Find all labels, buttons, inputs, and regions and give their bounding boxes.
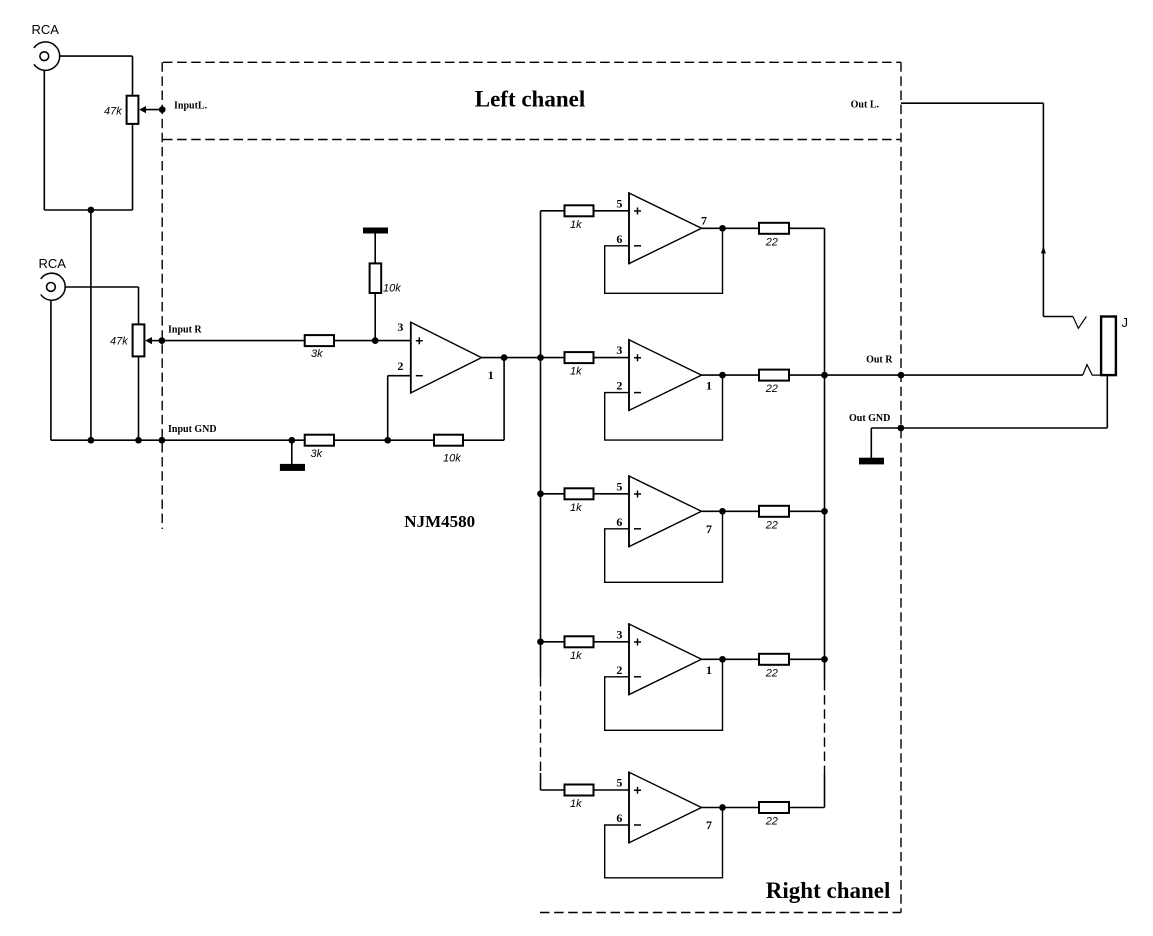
- wire 10k to + input: [374, 293, 376, 341]
- wire output to 22 (buffer 5): [702, 807, 760, 809]
- wire bus to 1k (buffer 2): [541, 357, 565, 359]
- wire Out L: [901, 102, 1043, 104]
- node pot2 bottom dot on Input GND: [135, 437, 142, 444]
- op-amp buffer 3 (triangle): [629, 475, 702, 547]
- wire feedback loop (buffer 2): [605, 375, 723, 440]
- svg-text:Out R: Out R: [866, 354, 893, 365]
- power rail bar (top): [363, 228, 388, 234]
- svg-text:47k: 47k: [104, 106, 122, 118]
- wire 22 to output bus (buffer 3): [789, 510, 825, 512]
- wire 3k to op-amp + input: [334, 340, 411, 342]
- wire left input bus (solid upper): [540, 211, 542, 677]
- resistor 10k (bias, vertical): [370, 263, 382, 293]
- svg-text:5: 5: [616, 776, 622, 790]
- node + input junction dot: [372, 337, 379, 344]
- svg-text:Right chanel: Right chanel: [766, 878, 891, 903]
- svg-text:6: 6: [616, 515, 622, 529]
- svg-text:3: 3: [616, 627, 622, 641]
- wire rail to 10k: [374, 234, 376, 264]
- svg-text:5: 5: [616, 196, 622, 210]
- wire RCA2 ground drop: [50, 300, 52, 440]
- svg-text:2: 2: [616, 379, 622, 393]
- dashed border top (Left chanel box): [163, 61, 901, 63]
- svg-text:47k: 47k: [110, 336, 128, 348]
- wire RCA2 top to pot2: [64, 286, 138, 288]
- potentiometer 47k right channel (body): [133, 324, 145, 356]
- node U1A output dot: [501, 354, 508, 361]
- resistor 22 (buffer 4): [759, 654, 789, 665]
- svg-text:7: 7: [706, 818, 712, 832]
- arrowhead on Out L wire: [1041, 246, 1046, 253]
- svg-text:Input GND: Input GND: [168, 424, 217, 435]
- resistor 10k (feedback): [434, 435, 463, 446]
- svg-text:3k: 3k: [311, 348, 323, 360]
- node input bus dot (buffer 4): [537, 638, 544, 645]
- svg-text:22: 22: [765, 236, 778, 248]
- wire 22 to output bus (buffer 2): [789, 374, 825, 376]
- resistor 1k (buffer 1): [565, 205, 594, 216]
- svg-text:6: 6: [616, 811, 622, 825]
- node output bus dot (buffer 2): [821, 372, 828, 379]
- node Input GND dot on dashed border: [159, 437, 166, 444]
- wire 1k to + input (buffer 5): [594, 789, 630, 791]
- wire feedback to inverting node: [388, 439, 434, 441]
- wire output to 22 (buffer 3): [702, 510, 760, 512]
- wire feedback loop (buffer 5): [605, 808, 723, 878]
- svg-text:10k: 10k: [443, 453, 461, 465]
- wire right output bus (solid lower): [824, 774, 826, 808]
- wire 1k to + input (buffer 1): [594, 210, 630, 212]
- wire feedback drop: [503, 358, 505, 441]
- resistor 22 (buffer 3): [759, 506, 789, 517]
- op-amp buffer 5 (triangle): [629, 772, 702, 844]
- node input bus dot (buffer 3): [537, 490, 544, 497]
- wire 1k to + input (buffer 3): [594, 493, 630, 495]
- svg-text:22: 22: [765, 816, 778, 828]
- node output dot (buffer 5): [719, 804, 726, 811]
- dashed continuation left bus: [540, 677, 542, 773]
- wire inverting node up to pin 2: [387, 376, 389, 441]
- wire output to 22 (buffer 1): [702, 227, 760, 229]
- wire RCA1 top to pot1: [59, 55, 133, 57]
- wire Out GND ground stub: [870, 428, 872, 458]
- node ground junction dot: [288, 437, 295, 444]
- dashed border middle (Left chanel box bottom): [163, 139, 901, 141]
- svg-text:3: 3: [616, 343, 622, 357]
- svg-text:1k: 1k: [570, 798, 582, 810]
- wire pot1 bottom: [132, 124, 134, 210]
- node output dot (buffer 3): [719, 508, 726, 515]
- wire Out R: [825, 374, 1083, 376]
- svg-text:3: 3: [397, 320, 403, 334]
- wire junction down to Input GND: [90, 210, 92, 440]
- node junction dot at left ground loop: [88, 207, 95, 214]
- node input bus dot (buffer 2): [537, 354, 544, 361]
- resistor 1k (buffer 2): [565, 352, 594, 363]
- svg-text:Input R: Input R: [168, 324, 202, 335]
- resistor 1k (buffer 4): [565, 636, 594, 647]
- wire bus to 1k (buffer 1): [541, 210, 565, 212]
- svg-text:J: J: [1122, 315, 1129, 330]
- wire ground stub: [291, 440, 293, 464]
- wire bus to 1k (buffer 3): [541, 493, 565, 495]
- resistor 3k (ground leg): [305, 435, 334, 446]
- wire 3k ground leg to inverting node: [334, 439, 388, 441]
- wire 1k to + input (buffer 2): [594, 357, 630, 359]
- node dot left loop on Input GND: [88, 437, 95, 444]
- svg-text:2: 2: [616, 663, 622, 677]
- wire output to 22 (buffer 4): [702, 658, 760, 660]
- node Input R junction dot: [159, 337, 166, 344]
- resistor 22 (buffer 1): [759, 223, 789, 234]
- wiper arrow pot2: [145, 337, 152, 344]
- node InputL junction dot: [159, 106, 166, 113]
- svg-text:22: 22: [765, 667, 778, 679]
- svg-text:22: 22: [765, 519, 778, 531]
- resistor 22 (buffer 2): [759, 370, 789, 381]
- ground bar (Out GND): [859, 458, 884, 465]
- svg-text:2: 2: [397, 359, 403, 373]
- dashed border bottom (Right chanel box): [540, 912, 901, 914]
- wire output to 22 (buffer 2): [702, 374, 760, 376]
- op-amp buffer 2 (triangle): [629, 339, 702, 411]
- svg-text:RCA: RCA: [39, 256, 67, 271]
- svg-text:NJM4580: NJM4580: [404, 512, 475, 531]
- jack ring contact (caret notch): [1083, 365, 1101, 376]
- wire jack sleeve to Out GND: [1106, 375, 1108, 428]
- svg-text:1: 1: [706, 663, 712, 677]
- resistor 1k (buffer 5): [565, 785, 594, 796]
- svg-text:10k: 10k: [383, 283, 401, 295]
- wire left input bus (solid lower): [540, 773, 542, 790]
- wire bus to 1k (buffer 4): [541, 641, 565, 643]
- node Out R dot on dashed border: [898, 372, 905, 379]
- resistor 1k (buffer 3): [565, 488, 594, 499]
- svg-text:7: 7: [701, 213, 707, 227]
- svg-text:1: 1: [488, 368, 494, 382]
- svg-text:3k: 3k: [311, 448, 323, 460]
- svg-text:1k: 1k: [570, 366, 582, 378]
- svg-text:22: 22: [765, 383, 778, 395]
- wire U1A output to bus: [482, 357, 541, 359]
- wire 1k to + input (buffer 4): [594, 641, 630, 643]
- svg-text:1k: 1k: [570, 219, 582, 231]
- node output bus dot (buffer 4): [821, 656, 828, 663]
- svg-text:6: 6: [616, 232, 622, 246]
- node inverting junction dot: [384, 437, 391, 444]
- svg-text:Out GND: Out GND: [849, 413, 890, 424]
- wire feedback loop (buffer 4): [605, 659, 723, 730]
- wire RCA1 ground loop: [43, 70, 45, 210]
- svg-text:Left chanel: Left chanel: [475, 87, 586, 112]
- op-amp U1A NJM4580 (triangle): [411, 322, 482, 394]
- wire feedback loop (buffer 3): [605, 511, 723, 582]
- jack tip contact (V notch): [1073, 317, 1087, 329]
- potentiometer 47k left channel (body): [127, 96, 139, 124]
- RCA connector right channel (arc + pin circle): [41, 273, 66, 300]
- svg-text:7: 7: [706, 522, 712, 536]
- svg-text:1: 1: [706, 379, 712, 393]
- ground bar (input GND): [280, 464, 305, 471]
- svg-text:5: 5: [616, 479, 622, 493]
- svg-text:Out L.: Out L.: [851, 100, 880, 111]
- node output dot (buffer 2): [719, 372, 726, 379]
- svg-text:1k: 1k: [570, 650, 582, 662]
- wire Input R to 3k: [162, 340, 305, 342]
- svg-text:InputL.: InputL.: [174, 100, 208, 111]
- wiper arrow pot1: [139, 106, 146, 113]
- svg-text:1k: 1k: [570, 502, 582, 514]
- resistor 22 (buffer 5): [759, 802, 789, 813]
- op-amp buffer 1 (triangle): [629, 192, 702, 264]
- dashed border left vertical: [161, 62, 163, 529]
- node Out GND dot on dashed border: [898, 425, 905, 432]
- svg-text:RCA: RCA: [32, 22, 60, 37]
- op-amp buffer 4 (triangle): [629, 623, 702, 695]
- wire 22 to output bus (buffer 1): [789, 227, 825, 229]
- wire pot2 bottom: [138, 356, 140, 440]
- resistor 3k (Input R series): [305, 335, 334, 346]
- wire right output bus (solid upper): [824, 228, 826, 681]
- node output bus dot (buffer 3): [821, 508, 828, 515]
- dashed border right vertical: [900, 62, 902, 912]
- RCA connector left channel (arc + pin circle): [34, 42, 60, 70]
- dashed continuation right bus: [824, 681, 826, 774]
- node output dot (buffer 1): [719, 225, 726, 232]
- wire 22 to output bus (buffer 4): [789, 658, 825, 660]
- jack J (body): [1101, 317, 1116, 376]
- wire feedback loop (buffer 1): [605, 228, 723, 293]
- node output dot (buffer 4): [719, 656, 726, 663]
